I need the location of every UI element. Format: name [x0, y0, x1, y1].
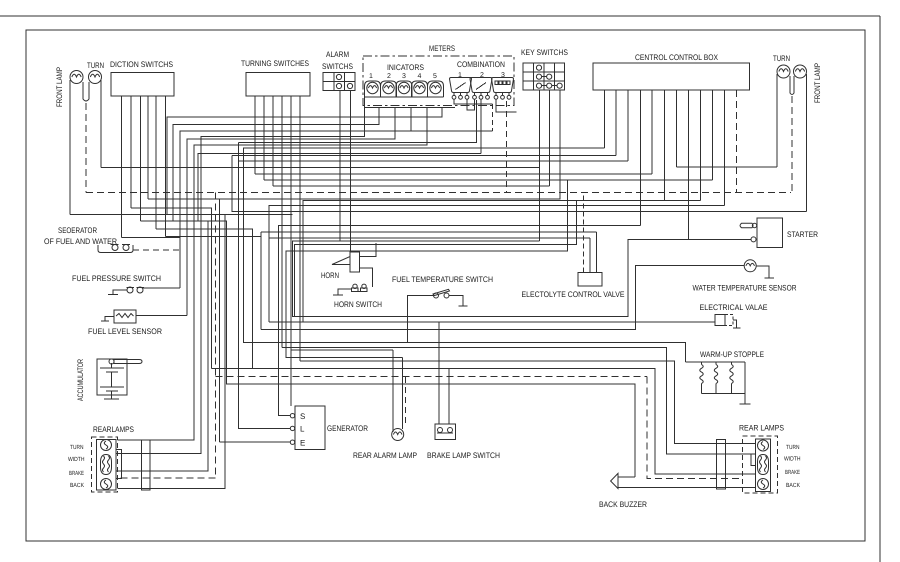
wire: x232 down and right to right front lamp	[232, 155, 807, 211]
wire: diction pin1 / left lamp line y214.5	[70, 214, 293, 216]
left rear BACK lamp	[101, 479, 112, 490]
svg-text:2: 2	[387, 73, 391, 80]
svg-text:WIDTH: WIDTH	[68, 456, 85, 463]
wire: y251 x286 y357 to rear alarm lamp right	[286, 180, 568, 357]
wire: control pin2 line y155 to x232	[232, 154, 616, 156]
separator feed stub	[97, 245, 99, 248]
svg-text:FRONT LAMP: FRONT LAMP	[55, 67, 64, 107]
wire: dashed combination g3 drop to chain line	[506, 101, 508, 193]
right lamp U joint	[790, 88, 794, 95]
svg-text:WARM-UP STOPPLE: WARM-UP STOPPLE	[700, 350, 764, 359]
wire: dashed drop x647 into right rear lamp housing	[647, 377, 743, 479]
water temperature sensor symbol	[744, 260, 756, 272]
diction switch pin wires	[121, 96, 123, 238]
generator box	[295, 406, 325, 450]
wire: x225 down to left rear BACK lamp	[118, 215, 226, 488]
fuel pressure switch ground lead	[113, 290, 127, 294]
wire: indicator4 pin via y145 to left rear TURN lamp	[118, 108, 428, 441]
brake lamp switch pins	[438, 322, 440, 424]
fuel temp switch left lead	[408, 296, 434, 343]
wire: y369 to right rear BRAKE lamp	[212, 369, 756, 474]
wire: dashed bundle drop x215.7	[215, 193, 217, 478]
wire: indicator3 pin drop	[410, 108, 412, 132]
wire: combination g1 leg dashed drop to y131	[491, 104, 493, 131]
wire: indicator1 pin to left bundle x173	[173, 108, 379, 222]
wire: indicator5 pin to left bundle x167	[167, 108, 442, 216]
wire: g2 leg drop x481	[480, 99, 482, 153]
page edge top gray line	[0, 15, 880, 17]
rear alarm lamp cylinder	[392, 350, 394, 432]
svg-text:METERS: METERS	[429, 44, 455, 53]
left rear WIDTH/BRAKE double lamp	[101, 455, 112, 475]
wire: y238 to electrolyte valve pin2	[269, 237, 590, 239]
alarm switch pin wires	[339, 91, 341, 242]
left harness connector block	[142, 440, 151, 490]
wire: left front lamp right y167 to key pin1	[101, 167, 540, 169]
wire: y232 to electrolyte valve pin3	[261, 231, 597, 233]
wire: turning pin4 y347 to right rear WIDTH lamp	[282, 347, 756, 453]
key switch pin wires	[539, 90, 541, 241]
svg-text:ALARM: ALARM	[326, 50, 349, 59]
wire: indicator bus left drop to left rear WIDTH lamp	[116, 108, 365, 454]
wire: long dashed turn-signal chain line y=192	[86, 192, 791, 194]
svg-text:E: E	[300, 439, 305, 448]
svg-text:REAR LAMPS: REAR LAMPS	[739, 424, 784, 433]
wire: turning pin5 y350 to rear alarm lamp	[291, 349, 393, 351]
wire: diction pin5 to bundle x252.7	[156, 229, 253, 369]
indicator bus bars	[365, 96, 444, 98]
svg-text:TURN: TURN	[70, 444, 84, 451]
wire: diction pin3 via y221 x226.5 y384 to back buzzer line	[141, 221, 636, 477]
svg-text:STARTER: STARTER	[787, 230, 818, 239]
svg-text:FRONT LAMP: FRONT LAMP	[813, 63, 822, 103]
front lamp left bulb	[70, 71, 83, 84]
rear alarm lamp bulb	[392, 429, 404, 441]
dashed turn-signal drop (left)	[85, 103, 87, 193]
electrical valve box solid half	[715, 315, 725, 326]
horn switch ground lead	[338, 289, 351, 295]
svg-text:INICATORS: INICATORS	[387, 63, 424, 72]
accumulator (battery) box	[97, 359, 127, 395]
svg-text:TURN: TURN	[773, 54, 790, 63]
left rear lamps inner box	[97, 440, 117, 491]
svg-text:WATER TEMPERATURE SENSOR: WATER TEMPERATURE SENSOR	[693, 284, 797, 293]
svg-text:3: 3	[402, 73, 406, 80]
accumulator handle bar	[114, 360, 142, 364]
fuel level sensor left lead	[105, 317, 114, 322]
wire: g3 left leg jog right	[496, 99, 516, 112]
combination gauge 1	[450, 78, 472, 93]
combination gauge 2	[470, 78, 492, 93]
wire: dashed drop x405.5 beside rear alarm lamp	[405, 377, 407, 425]
svg-text:HORN: HORN	[321, 271, 339, 280]
lamp U joint	[83, 94, 89, 101]
svg-text:1: 1	[369, 73, 373, 80]
wire: control pin4 via x278 to generator S	[278, 226, 640, 416]
accumulator terminal	[109, 359, 114, 364]
right front lamp bulb 2	[794, 65, 807, 78]
front lamp right cylinder wire	[88, 82, 90, 94]
electrolyte valve pins	[583, 193, 585, 273]
right rear lamps dashed housing	[743, 436, 778, 493]
separator of fuel and water symbol	[98, 245, 133, 253]
svg-text:BACK BUZZER: BACK BUZZER	[599, 500, 647, 509]
svg-text:OF FUEL AND WATER: OF FUEL AND WATER	[44, 237, 117, 246]
right harness connector block	[717, 440, 726, 490]
fuel pressure switch wire right	[143, 287, 180, 289]
fuel temperature switch symbol	[434, 293, 439, 298]
wire: generator E feed drop x219.5	[219, 199, 221, 442]
dashed turn-signal drop (right)	[791, 96, 793, 193]
svg-text:TURNING SWITCHES: TURNING SWITCHES	[241, 59, 309, 68]
separator dashed wire to right	[133, 249, 180, 251]
turning switch pin wires	[254, 96, 256, 174]
wire: dashed y377 line	[216, 376, 647, 378]
svg-text:BACK: BACK	[70, 482, 84, 489]
svg-text:REAR ALARM LAMP: REAR ALARM LAMP	[353, 451, 417, 460]
warm-up stopple resistor bank	[686, 361, 746, 363]
alarm switch box	[323, 73, 355, 91]
back buzzer arrow	[611, 473, 618, 488]
wire: y153.5 to bundle x198	[198, 154, 481, 222]
svg-text:BACK: BACK	[786, 482, 800, 489]
horn top wire stub	[360, 243, 377, 257]
wire: x238.5 down to generator L	[239, 142, 291, 428]
svg-text:S: S	[300, 412, 305, 421]
battery plates	[100, 367, 124, 369]
electrolyte control valve box	[578, 273, 602, 287]
starter main terminal	[751, 237, 756, 242]
wire: turning pin6 y361 to right rear TURN lamp	[300, 361, 756, 444]
svg-text:HORN SWITCH: HORN SWITCH	[334, 300, 382, 309]
svg-text:REARLAMPS: REARLAMPS	[93, 425, 134, 434]
svg-text:ELECTRICAL VALAE: ELECTRICAL VALAE	[700, 303, 768, 312]
starter solenoid terminal pill	[740, 223, 753, 227]
wire: diction pin2 to bundle x211.5	[131, 208, 212, 369]
right rear lamps inner box	[756, 439, 771, 492]
brake lamp switch box	[435, 424, 456, 440]
turning switches box	[246, 73, 310, 97]
wire: control pin3 line y161	[239, 160, 629, 162]
water temp sensor right lead to ground	[756, 266, 769, 278]
wire: turning pin3 to key pin2 y186	[273, 185, 549, 187]
svg-text:TURN: TURN	[87, 61, 104, 70]
right rear WIDTH/BRAKE double lamp	[758, 455, 769, 475]
wire: control pin7 to right front lamp left y167	[676, 166, 777, 168]
svg-text:BRAKE: BRAKE	[785, 469, 800, 476]
key switch box grid	[523, 63, 565, 90]
front lamp right bulb	[89, 71, 102, 84]
left rear lamps dashed housing	[92, 437, 118, 492]
right front lamp cylinder wires	[776, 74, 778, 167]
wire: control pin1 via x243 y342 to warm-up stopple	[243, 148, 685, 362]
horn bell triangle	[332, 257, 350, 265]
svg-text:KEY SWITCHS: KEY SWITCHS	[521, 48, 568, 57]
wire: control pin9 y200.6 to x303	[303, 201, 700, 322]
horn to switch wire	[360, 268, 373, 287]
wire: x208 down to left rear BRAKE lamp	[116, 221, 208, 471]
diction switches box	[111, 73, 174, 97]
indicator lamp row	[365, 81, 381, 97]
starter box	[757, 218, 783, 248]
svg-text:SWITCHS: SWITCHS	[322, 62, 353, 71]
wire: control pin6 via y200 x577 y244 to horn loop bottom	[295, 201, 665, 317]
svg-text:L: L	[300, 425, 305, 434]
wire: combination g1 left leg jog right	[454, 99, 492, 104]
wire: dashed drop right front lamp	[791, 96, 793, 193]
electrical valve dashed half	[725, 315, 733, 326]
wire: g1 right to g2 left leg link	[467, 99, 475, 110]
right rear TURN lamp	[758, 440, 769, 451]
fuel level sensor box with resistor	[114, 310, 136, 323]
svg-text:COMBINATION: COMBINATION	[457, 60, 505, 69]
right rear BACK lamp	[758, 479, 769, 490]
front lamp left cylinder wire	[69, 80, 71, 215]
svg-text:CENTROL CONTROL BOX: CENTROL CONTROL BOX	[635, 53, 719, 62]
fuel pressure switch symbol	[127, 287, 133, 293]
control box pin 12 dashed wire	[736, 90, 738, 193]
METERS dashed enclosure	[363, 56, 514, 106]
svg-text:FUEL TEMPERATURE SWITCH: FUEL TEMPERATURE SWITCH	[392, 275, 493, 284]
electrical valve right lead	[733, 320, 737, 328]
fuel temp switch right lead to ground	[449, 296, 463, 306]
warm-up stopple ground	[744, 394, 746, 404]
central control box	[593, 63, 750, 90]
wire: y330 to water temperature sensor	[261, 266, 744, 330]
svg-text:SEOERATOR: SEOERATOR	[58, 226, 97, 235]
right front lamp bulb 1	[777, 65, 790, 78]
svg-text:DICTION SWITCHS: DICTION SWITCHS	[110, 60, 173, 69]
left rear width/brake stub bracket	[116, 450, 121, 479]
wire: x261 down to y330	[260, 232, 262, 330]
wire: y322 to electrical valve	[269, 321, 715, 323]
svg-text:WIDTH: WIDTH	[784, 456, 801, 463]
wire: diction pin4 to key switch pin3 at y199	[148, 90, 560, 199]
wire: indicator2 pin to fuel level sensor feed x187	[187, 108, 395, 316]
back buzzer double lead	[618, 476, 635, 478]
horn body	[350, 252, 360, 272]
svg-text:ACCUMULATOR: ACCUMULATOR	[76, 359, 85, 401]
wire: y131 from x492 to fuel pressure switch feed x180	[180, 131, 492, 288]
right rear width/brake stub bracket	[751, 454, 756, 466]
page edge right gray line	[879, 16, 881, 562]
wire: key pin1 horn loop to starter terminal	[293, 239, 751, 316]
svg-text:BRAKE LAMP SWITCH: BRAKE LAMP SWITCH	[427, 451, 500, 460]
svg-text:FUEL PRESSURE SWITCH: FUEL PRESSURE SWITCH	[72, 274, 161, 283]
wire: dashed into left rear lamps	[118, 477, 216, 479]
wire: diction pin6 to x261	[166, 236, 262, 238]
fuel level sensor wire right	[136, 315, 187, 317]
svg-text:5: 5	[433, 73, 437, 80]
svg-text:FUEL LEVEL SENSOR: FUEL LEVEL SENSOR	[88, 327, 162, 336]
wire: turning pin1 to control pin5 y174	[255, 173, 652, 175]
left rear TURN lamp	[101, 440, 112, 451]
wire: turning pin2 to control pin10 y180	[264, 179, 712, 181]
svg-text:GENERATOR: GENERATOR	[327, 424, 368, 433]
combination gauge 3	[492, 78, 514, 93]
svg-text:ELECTOLYTE CONTROL VALVE: ELECTOLYTE CONTROL VALVE	[522, 290, 625, 299]
wire: E feed horizontal to generator	[220, 441, 291, 443]
horn switch contacts	[352, 288, 359, 292]
svg-text:BRAKE: BRAKE	[69, 470, 84, 477]
wire: diction pin1 to fuel pressure drop x180	[122, 237, 181, 239]
svg-text:4: 4	[418, 73, 422, 80]
control box pin wires	[604, 90, 606, 148]
wire: control pin11 y205.5 to x269	[269, 206, 725, 322]
svg-text:TURN: TURN	[786, 444, 800, 451]
wire: combination g2 left leg to x238.5	[239, 100, 477, 142]
